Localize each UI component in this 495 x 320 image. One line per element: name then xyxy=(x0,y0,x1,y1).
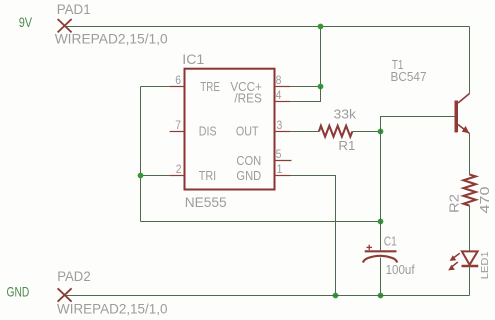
wire left vertical xyxy=(140,87,142,222)
svg-text:BC547: BC547 xyxy=(391,69,427,84)
junction node C1 bottom rail xyxy=(378,293,384,299)
svg-text:C1: C1 xyxy=(384,234,397,249)
svg-text:470: 470 xyxy=(477,187,492,214)
svg-text:WIREPAD2,15/1,0: WIREPAD2,15/1,0 xyxy=(55,31,168,47)
svg-text:/RES: /RES xyxy=(234,91,262,106)
wire R2 to LED xyxy=(469,206,471,252)
LED1 emission arrow 2 xyxy=(451,262,458,268)
pin 1 stub xyxy=(275,175,291,177)
svg-text:R1: R1 xyxy=(338,138,355,153)
svg-text:2: 2 xyxy=(176,162,182,176)
svg-text:CON: CON xyxy=(236,153,261,168)
svg-text:IC1: IC1 xyxy=(182,52,204,67)
LED1 emission arrow 1 xyxy=(453,253,460,258)
wire LED to GND rail xyxy=(469,266,471,296)
transistor T1 emitter arrowhead xyxy=(462,126,470,133)
svg-text:1: 1 xyxy=(277,162,283,176)
wire 9V drop to IC power pins xyxy=(320,27,322,87)
svg-text:TRE: TRE xyxy=(200,79,220,94)
junction node pin8 xyxy=(318,84,324,90)
wire pin1 to GND rail xyxy=(290,176,336,296)
wirepad PAD2 cross xyxy=(58,288,72,301)
junction node C1 top xyxy=(378,219,384,225)
transistor T1 base bar xyxy=(455,101,459,133)
IC U1 NE555 box xyxy=(185,69,275,190)
wire pin2 to left vertical xyxy=(141,175,170,177)
wire emitter to R2 xyxy=(469,134,471,175)
svg-text:DIS: DIS xyxy=(199,124,217,139)
capacitor C1 plus sign xyxy=(367,245,373,250)
wire pin6 to left vertical xyxy=(141,86,170,88)
junction node pin1 rail xyxy=(333,293,339,299)
wire node down to C1 xyxy=(380,132,382,222)
LED1 cathode bar xyxy=(462,265,479,268)
svg-text:PAD2: PAD2 xyxy=(57,268,91,284)
wire node up-over to base xyxy=(381,117,455,132)
svg-text:9V: 9V xyxy=(19,14,33,30)
pin 8 stub xyxy=(275,86,291,88)
resistor R2 zigzag xyxy=(464,175,476,206)
svg-text:LED1: LED1 xyxy=(479,251,491,279)
svg-text:PAD1: PAD1 xyxy=(57,1,91,17)
pin 5 stub (unconnected) xyxy=(275,160,292,162)
transistor T1 collector diagonal xyxy=(458,94,470,104)
svg-text:5: 5 xyxy=(276,147,282,161)
pin 6 stub xyxy=(170,86,185,88)
svg-text:WIREPAD2,15/1,0: WIREPAD2,15/1,0 xyxy=(57,300,168,316)
svg-text:OUT: OUT xyxy=(236,124,259,139)
svg-text:GND: GND xyxy=(7,284,30,300)
junction node pin2 xyxy=(138,173,144,179)
wire R1 to node xyxy=(352,131,380,133)
transistor T1 emitter diagonal xyxy=(458,125,470,134)
capacitor C1 curved plate xyxy=(363,256,397,263)
wire C1 top lead xyxy=(380,222,382,252)
pin 4 stub xyxy=(275,101,291,103)
junction node R1/base/C1 xyxy=(378,129,384,135)
svg-text:R2: R2 xyxy=(446,194,461,213)
wire pin4 loop xyxy=(290,87,321,102)
pin 2 stub xyxy=(170,175,185,177)
pin 3 stub xyxy=(275,131,291,133)
svg-text:4: 4 xyxy=(276,88,282,102)
wire 9V top rail xyxy=(66,26,470,28)
svg-text:GND: GND xyxy=(236,168,261,183)
svg-text:7: 7 xyxy=(175,118,181,132)
wire pin3 to R1 xyxy=(290,131,319,133)
wire C1 bottom lead xyxy=(380,258,382,296)
wire pin8 to power drop xyxy=(290,86,321,88)
wire 9V drop to collector xyxy=(469,27,471,94)
wire bottom horizontal to C1 node xyxy=(141,221,381,223)
wire GND bottom rail xyxy=(66,295,470,297)
wirepad PAD1 cross xyxy=(58,19,72,32)
pin 7 stub xyxy=(170,131,185,133)
svg-text:33k: 33k xyxy=(334,106,357,121)
resistor R1 zigzag xyxy=(319,126,352,137)
LED1 triangle xyxy=(462,251,478,264)
svg-text:3: 3 xyxy=(277,118,283,132)
svg-text:100uf: 100uf xyxy=(386,263,415,277)
svg-text:6: 6 xyxy=(175,73,181,87)
svg-text:8: 8 xyxy=(276,73,282,87)
capacitor C1 top plate xyxy=(365,250,397,252)
junction node top rail xyxy=(318,24,324,30)
svg-text:TRI: TRI xyxy=(199,168,217,183)
svg-text:NE555: NE555 xyxy=(185,194,227,210)
